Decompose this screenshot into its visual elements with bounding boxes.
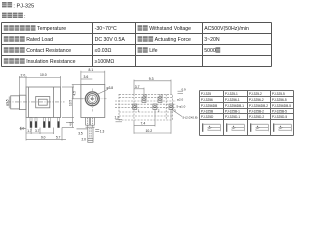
svg-text:0.9: 0.9 [182,87,187,91]
svg-text:≥100MΩ: ≥100MΩ [95,59,115,65]
svg-text:PJ-3256DB-5: PJ-3256DB-5 [272,104,291,108]
svg-text:3.7: 3.7 [135,85,140,89]
D1 bottom dimension lines [20,118,67,141]
svg-text:PJ-325B: PJ-325B [201,109,213,113]
svg-text:Temperature: Temperature [37,26,66,32]
svg-text:Insulation Resistance: Insulation Resistance [26,59,75,65]
svg-text:1.0: 1.0 [20,126,25,130]
spec table grid [2,23,272,67]
D2 left vertical dimension 4.5 [72,85,83,99]
models table grid [200,91,294,136]
svg-text:PJ-325-5: PJ-325-5 [272,92,285,96]
svg-text:8.1: 8.1 [89,68,94,72]
svg-text:10.2: 10.2 [146,129,153,133]
svg-text:1.3: 1.3 [100,129,105,133]
D1 barrel bushing [11,96,20,109]
svg-text:1.7: 1.7 [27,129,32,133]
svg-text:PJ-325-1: PJ-325-1 [225,92,238,96]
D2 top dimension 8.1 [81,71,105,85]
svg-text:PJ-325D-2: PJ-325D-2 [249,115,264,119]
svg-text:5-(2.0X0.8): 5-(2.0X0.8) [183,115,198,119]
svg-text:PJ-3256DB-1: PJ-3256DB-1 [225,104,244,108]
title 技术指标： [2,13,26,20]
svg-text:φ2.0: φ2.0 [177,98,183,102]
svg-text:PJ-3256-1: PJ-3256-1 [225,98,240,102]
svg-text:4.5: 4.5 [73,91,77,96]
svg-text:PJ-3256DB: PJ-3256DB [201,104,217,108]
svg-text:5-φ1.0: 5-φ1.0 [177,105,186,109]
svg-text:PJ-325D-5: PJ-325D-5 [272,115,287,119]
D1 barrel flange [19,95,26,109]
svg-text:AC500V(50Hz)/min: AC500V(50Hz)/min [204,26,249,32]
svg-text:φ3.5: φ3.5 [6,99,10,106]
models table mini schematics [202,123,220,131]
svg-text:3.5: 3.5 [78,132,83,136]
spec table cell text [4,25,66,32]
svg-text:4.5: 4.5 [143,93,147,97]
svg-text:Life: Life [149,48,157,54]
svg-text:1.2: 1.2 [115,115,120,119]
svg-text:5.5: 5.5 [159,93,163,97]
svg-text:7.4: 7.4 [141,122,146,126]
svg-text:Withstand Voltage: Withstand Voltage [149,26,191,32]
D1 internal vertical line [53,87,55,118]
D1 pins [30,118,60,128]
svg-text:φ3.8: φ3.8 [107,86,114,90]
svg-text:3~20N: 3~20N [204,37,220,43]
D3 dimension 9.3 [134,80,171,97]
D3 right labels and leader [172,109,183,116]
D2 leader to phi3.8 [97,90,108,95]
svg-text:: PJ-325: : PJ-325 [13,3,34,9]
svg-text:≤0.03Ω: ≤0.03Ω [95,48,112,54]
svg-text:9.3: 9.3 [149,77,154,81]
D1 inner window [36,97,50,108]
D3 bottom dims 7.4 / 10.2 [134,109,171,133]
D1 right vertical dimension [62,87,74,128]
svg-text:10.0: 10.0 [40,73,47,77]
svg-text:3.7: 3.7 [35,129,40,133]
svg-text:2.0: 2.0 [82,137,87,141]
svg-text:PJ-3256-5: PJ-3256-5 [272,98,287,102]
svg-text:13.5: 13.5 [69,100,73,106]
svg-text:PJ-325B-2: PJ-325B-2 [249,109,264,113]
svg-text:PJ-325B-1: PJ-325B-1 [225,109,240,113]
svg-text:9.0: 9.0 [41,135,46,139]
D3 dashed outline top view [115,94,176,120]
svg-text:2.0: 2.0 [21,74,26,78]
svg-text:PJ-3256DB-2: PJ-3256DB-2 [249,104,268,108]
D3 left dim 1.2 [116,119,123,121]
D2 bottom pin assembly [77,118,100,143]
title model number 型号：PJ-325 [2,2,34,9]
svg-text:Actuating Force: Actuating Force [155,37,191,43]
svg-text:PJ-325B-5: PJ-325B-5 [272,109,287,113]
svg-text:PJ-3256-2: PJ-3256-2 [249,98,264,102]
svg-text:Contact Resistance: Contact Resistance [26,48,71,54]
svg-text:PJ-325-2: PJ-325-2 [249,92,262,96]
svg-text:3.6: 3.6 [84,75,89,79]
D1 top dimension lines 2.0 / 10.0 [19,76,60,95]
svg-text:DC 30V 0.5A: DC 30V 0.5A [95,37,126,43]
D1 left barrel dim phi3.5 [8,97,10,109]
svg-text:5.7: 5.7 [56,135,61,139]
D1 centerline [7,101,65,103]
svg-text:5000: 5000 [204,48,216,54]
D2 front view rectangle [81,85,105,118]
D2 crosshair centerlines [83,98,107,100]
svg-text:PJ-325D-1: PJ-325D-1 [225,115,240,119]
svg-text:-30~70°C: -30~70°C [95,26,117,32]
svg-text:4.0: 4.0 [69,121,73,126]
svg-text:PJ-325D: PJ-325D [201,115,214,119]
svg-text:PJ-3256: PJ-3256 [201,98,213,102]
D2 jack circles [85,92,99,106]
svg-text:Rated Load: Rated Load [26,37,53,43]
svg-text:PJ-325: PJ-325 [201,92,211,96]
D3 solder pads [133,97,173,109]
D1 body rectangle [26,87,61,118]
